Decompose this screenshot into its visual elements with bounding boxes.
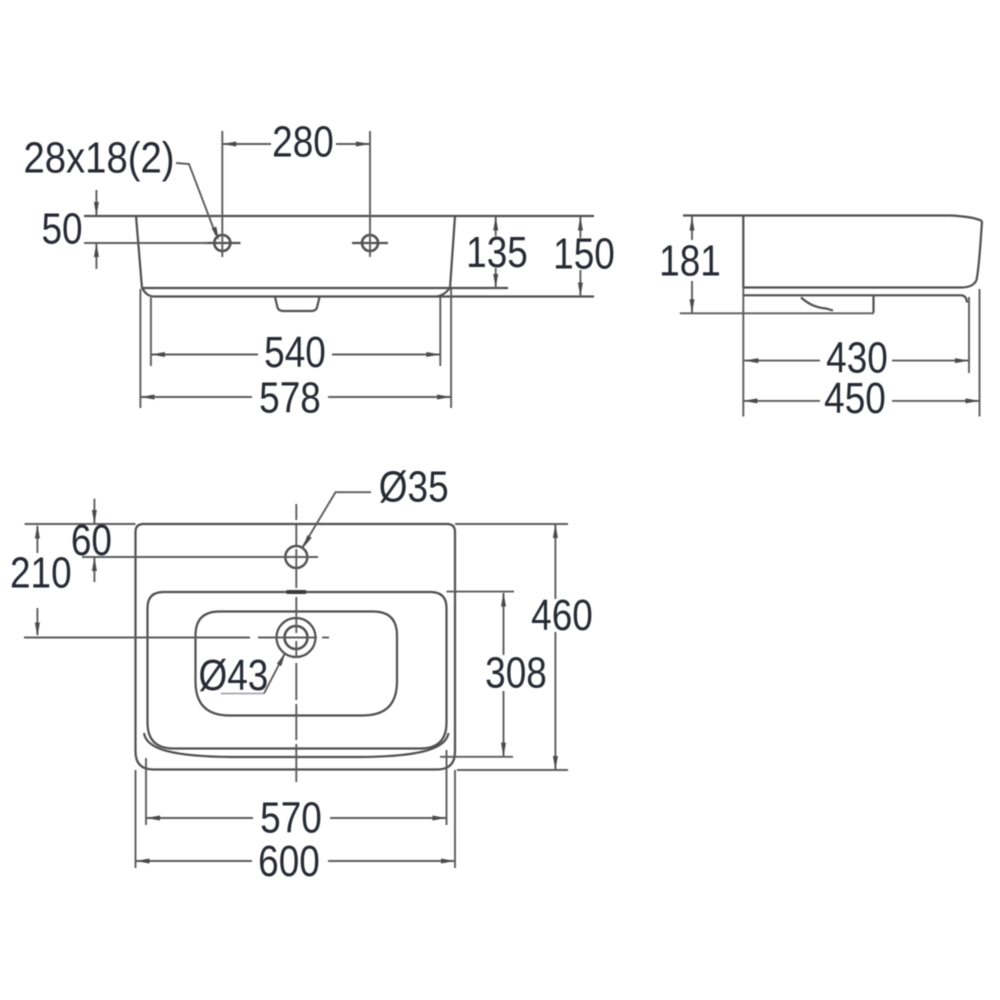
svg-text:540: 540 xyxy=(264,327,326,377)
svg-text:181: 181 xyxy=(659,235,721,285)
svg-text:578: 578 xyxy=(259,373,321,423)
svg-text:280: 280 xyxy=(272,117,334,167)
svg-text:570: 570 xyxy=(260,793,322,843)
svg-text:50: 50 xyxy=(41,204,82,254)
svg-text:Ø35: Ø35 xyxy=(379,462,449,512)
svg-text:460: 460 xyxy=(531,590,593,640)
svg-text:210: 210 xyxy=(10,548,72,598)
svg-text:150: 150 xyxy=(553,229,615,279)
svg-text:135: 135 xyxy=(466,227,528,277)
svg-text:308: 308 xyxy=(485,648,547,698)
svg-text:600: 600 xyxy=(258,836,320,886)
svg-text:28x18(2): 28x18(2) xyxy=(23,133,174,182)
svg-text:Ø43: Ø43 xyxy=(198,650,268,700)
svg-text:450: 450 xyxy=(824,373,886,423)
svg-text:60: 60 xyxy=(71,515,112,565)
